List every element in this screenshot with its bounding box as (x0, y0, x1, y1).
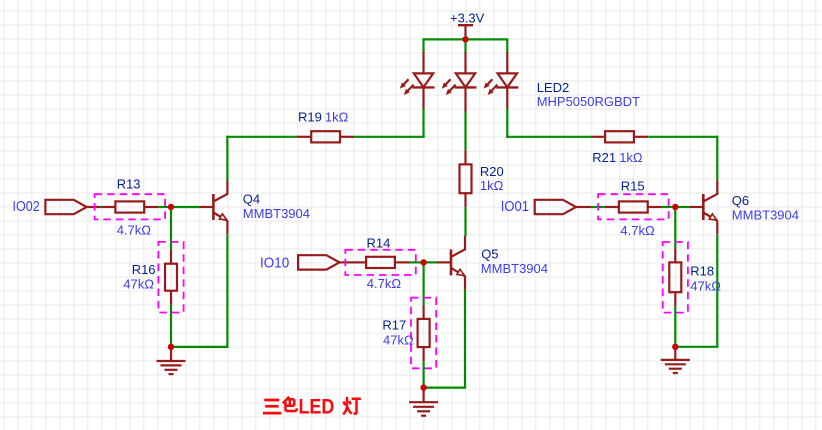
wire IO01 to R15 (591, 206, 605, 208)
port IO10 (298, 255, 353, 269)
junction node Q6 base (672, 204, 678, 210)
title text: san (three) glyph (263, 400, 281, 413)
resistor R16 (165, 250, 177, 305)
ground GND middle (409, 388, 438, 416)
wire Q5 emitter down (464, 290, 466, 388)
wire Q4 emitter to ground row (170, 346, 229, 348)
wire Q6 emitter down (716, 234, 718, 347)
wire R21 row right segment (648, 136, 718, 138)
wire junction to Q4 base (171, 206, 199, 208)
svg-text:1kΩ: 1kΩ (480, 178, 504, 193)
resistor R19 (297, 131, 354, 142)
svg-text:MMBT3904: MMBT3904 (481, 261, 548, 276)
wire Q4 emitter down (226, 234, 228, 347)
port IO01 (535, 200, 591, 214)
svg-text:Q4: Q4 (243, 192, 260, 207)
junction node middle ground (420, 384, 426, 390)
svg-text:MHP5050RGBDT: MHP5050RGBDT (537, 94, 640, 109)
svg-text:MMBT3904: MMBT3904 (243, 206, 310, 221)
svg-text:R18: R18 (690, 264, 714, 279)
svg-text:IO02: IO02 (13, 198, 40, 215)
title text: deng (lamp) glyph (343, 397, 361, 415)
port IO02 (45, 200, 100, 214)
wire IO02 to R13 (100, 206, 102, 208)
wire LED1 anode (422, 38, 424, 52)
wire Q4 collector column (226, 136, 228, 181)
wire top bus (424, 38, 508, 40)
svg-text:Q6: Q6 (732, 193, 749, 208)
wire R15 to junction (662, 206, 676, 208)
wire LED1 cathode down (422, 109, 424, 138)
junction node Q4 base (168, 204, 174, 210)
svg-text:47kΩ: 47kΩ (123, 276, 154, 291)
title text: se (color) glyph (283, 397, 297, 411)
wire LED3 cathode down (506, 109, 508, 138)
resistor R21 (591, 131, 648, 142)
wire R17 to ground junction (423, 361, 425, 388)
selection box R18 (663, 242, 688, 313)
svg-text:LED: LED (299, 393, 335, 418)
ground GND left (157, 347, 186, 374)
junction node left ground (168, 344, 174, 350)
svg-text:47kΩ: 47kΩ (690, 278, 721, 293)
LED D1 (red) of LED2 (400, 52, 435, 109)
junction top (462, 36, 468, 42)
resistor R13 (101, 201, 158, 212)
svg-text:R20: R20 (480, 164, 504, 179)
svg-text:R21: R21 (592, 150, 616, 165)
wire R20 to Q5 collector (464, 207, 466, 236)
svg-text:R19: R19 (298, 109, 322, 124)
wire Q6 emitter to ground row (674, 346, 718, 348)
svg-text:4.7kΩ: 4.7kΩ (367, 276, 402, 291)
resistor R18 (669, 248, 681, 306)
svg-text:4.7kΩ: 4.7kΩ (117, 223, 152, 238)
svg-text:Q5: Q5 (481, 246, 498, 261)
resistor R15 (605, 201, 662, 212)
selection box R17 (411, 298, 436, 369)
selection box R16 (158, 242, 183, 313)
wire R21 row left segment (506, 136, 591, 138)
svg-text:R17: R17 (382, 318, 406, 333)
resistor R14 (352, 257, 409, 268)
svg-text:R13: R13 (117, 177, 141, 192)
svg-text:47kΩ: 47kΩ (383, 333, 414, 348)
junction node Q5 base (420, 259, 426, 265)
svg-text:IO01: IO01 (501, 198, 529, 215)
transistor Q5 MMBT3904 (437, 236, 465, 290)
wire LED2 cathode to R20 (464, 112, 466, 151)
wire Q6 collector column (716, 136, 718, 181)
selection box R14 (345, 250, 416, 275)
svg-text:MMBT3904: MMBT3904 (732, 207, 799, 222)
wire junction to Q6 base (675, 206, 689, 208)
svg-text:IO10: IO10 (260, 254, 289, 271)
ground GND right (661, 347, 690, 373)
svg-text:R15: R15 (621, 179, 645, 194)
wire R18 to ground junction (674, 306, 676, 347)
wire Q5 emitter to ground row (423, 387, 467, 389)
svg-text:1kΩ: 1kΩ (325, 109, 349, 124)
wire R13 to junction (158, 206, 171, 208)
svg-text:+3.3V: +3.3V (450, 10, 485, 25)
transistor Q4 MMBT3904 (199, 181, 227, 235)
wire R19 row left segment (226, 136, 297, 138)
wire junction down to R18 (674, 207, 676, 248)
LED D2 (green) of LED2 (442, 52, 477, 112)
wire LED2 anode (464, 39, 466, 52)
svg-text:1kΩ: 1kΩ (619, 150, 643, 165)
svg-text:LED2: LED2 (537, 80, 570, 95)
svg-text:R14: R14 (367, 236, 391, 251)
LED D3 (blue) of LED2 (484, 52, 519, 109)
resistor R20 (460, 150, 472, 207)
power +3.3V flag (450, 10, 485, 39)
wire R14 to junction (409, 261, 424, 263)
wire junction to Q5 base (424, 261, 437, 263)
transistor Q6 MMBT3904 (689, 181, 717, 235)
svg-text:R16: R16 (132, 262, 156, 277)
wire LED3 anode (506, 38, 508, 52)
resistor R17 (418, 305, 430, 361)
wire junction down to R17 (423, 262, 425, 305)
wire R16 to ground junction (170, 305, 172, 347)
svg-text:4.7kΩ: 4.7kΩ (620, 223, 655, 238)
wire junction down to R16 (170, 207, 172, 250)
selection box R13 (95, 194, 166, 219)
junction node right ground (672, 344, 678, 350)
selection box R15 (598, 194, 669, 219)
wire R19 row right segment (354, 136, 425, 138)
